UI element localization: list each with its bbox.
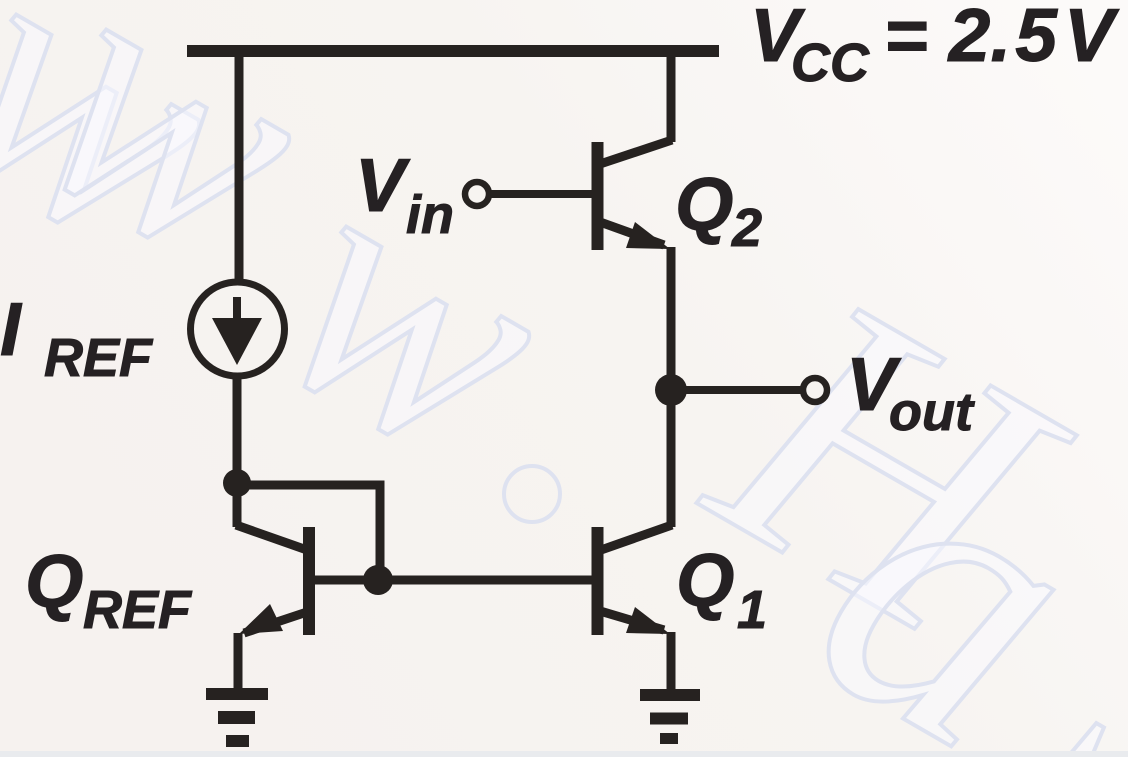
QREF emitter arrow — [239, 604, 283, 634]
wire node A to base link — [237, 485, 380, 580]
base wire QREF to Q1 — [313, 576, 594, 585]
Q2 emitter wire to Vout node — [667, 247, 676, 390]
ground QREF — [206, 688, 268, 700]
ground Q1 — [640, 689, 700, 701]
Q1 emitter arrow — [626, 607, 670, 634]
svg-text:V: V — [355, 143, 411, 227]
svg-text:Q: Q — [676, 538, 734, 622]
current source I_REF — [191, 282, 285, 376]
node Vout — [655, 374, 687, 406]
Q2 emitter arrow — [626, 222, 670, 249]
svg-text:REF: REF — [44, 328, 154, 388]
wire Vout node to terminal — [671, 386, 801, 394]
svg-text:= 2.5: = 2.5 — [884, 0, 1058, 77]
transistor Q2 base bar — [592, 142, 604, 250]
VCC rail — [187, 45, 719, 57]
transistor Q1 base bar — [592, 527, 604, 635]
node B (base junction) — [363, 565, 393, 595]
QREF emitter wire — [234, 633, 243, 692]
svg-text:V: V — [1064, 0, 1120, 77]
svg-text:out: out — [889, 382, 975, 442]
svg-text:1: 1 — [737, 580, 767, 640]
svg-text:Q: Q — [675, 162, 733, 246]
Q1 collector diagonal — [601, 525, 672, 550]
Q2 collector wire to rail — [667, 51, 676, 142]
svg-text:REF: REF — [83, 580, 193, 640]
Q2 emitter diagonal — [600, 222, 664, 245]
QREF emitter diagonal — [244, 612, 307, 633]
svg-text:I: I — [0, 287, 23, 371]
wire current source to node A — [233, 376, 242, 527]
Q2 collector diagonal — [600, 140, 672, 164]
svg-text:2: 2 — [731, 198, 762, 258]
svg-text:in: in — [406, 185, 454, 245]
svg-text:CC: CC — [791, 33, 870, 93]
wire rail to current source — [235, 51, 244, 284]
Q1 emitter wire — [667, 632, 676, 692]
output terminal Vout — [803, 378, 827, 402]
node A (collector of QREF) — [223, 469, 251, 497]
QREF collector diagonal — [236, 525, 307, 550]
svg-text:Q: Q — [25, 539, 83, 623]
Q1 collector wire — [667, 390, 676, 527]
Q1 emitter diagonal — [600, 611, 664, 630]
input terminal Vin — [465, 182, 489, 206]
transistor QREF base bar — [303, 527, 315, 635]
wire Vin to Q2 base — [489, 190, 594, 198]
bottom band — [0, 751, 1128, 757]
